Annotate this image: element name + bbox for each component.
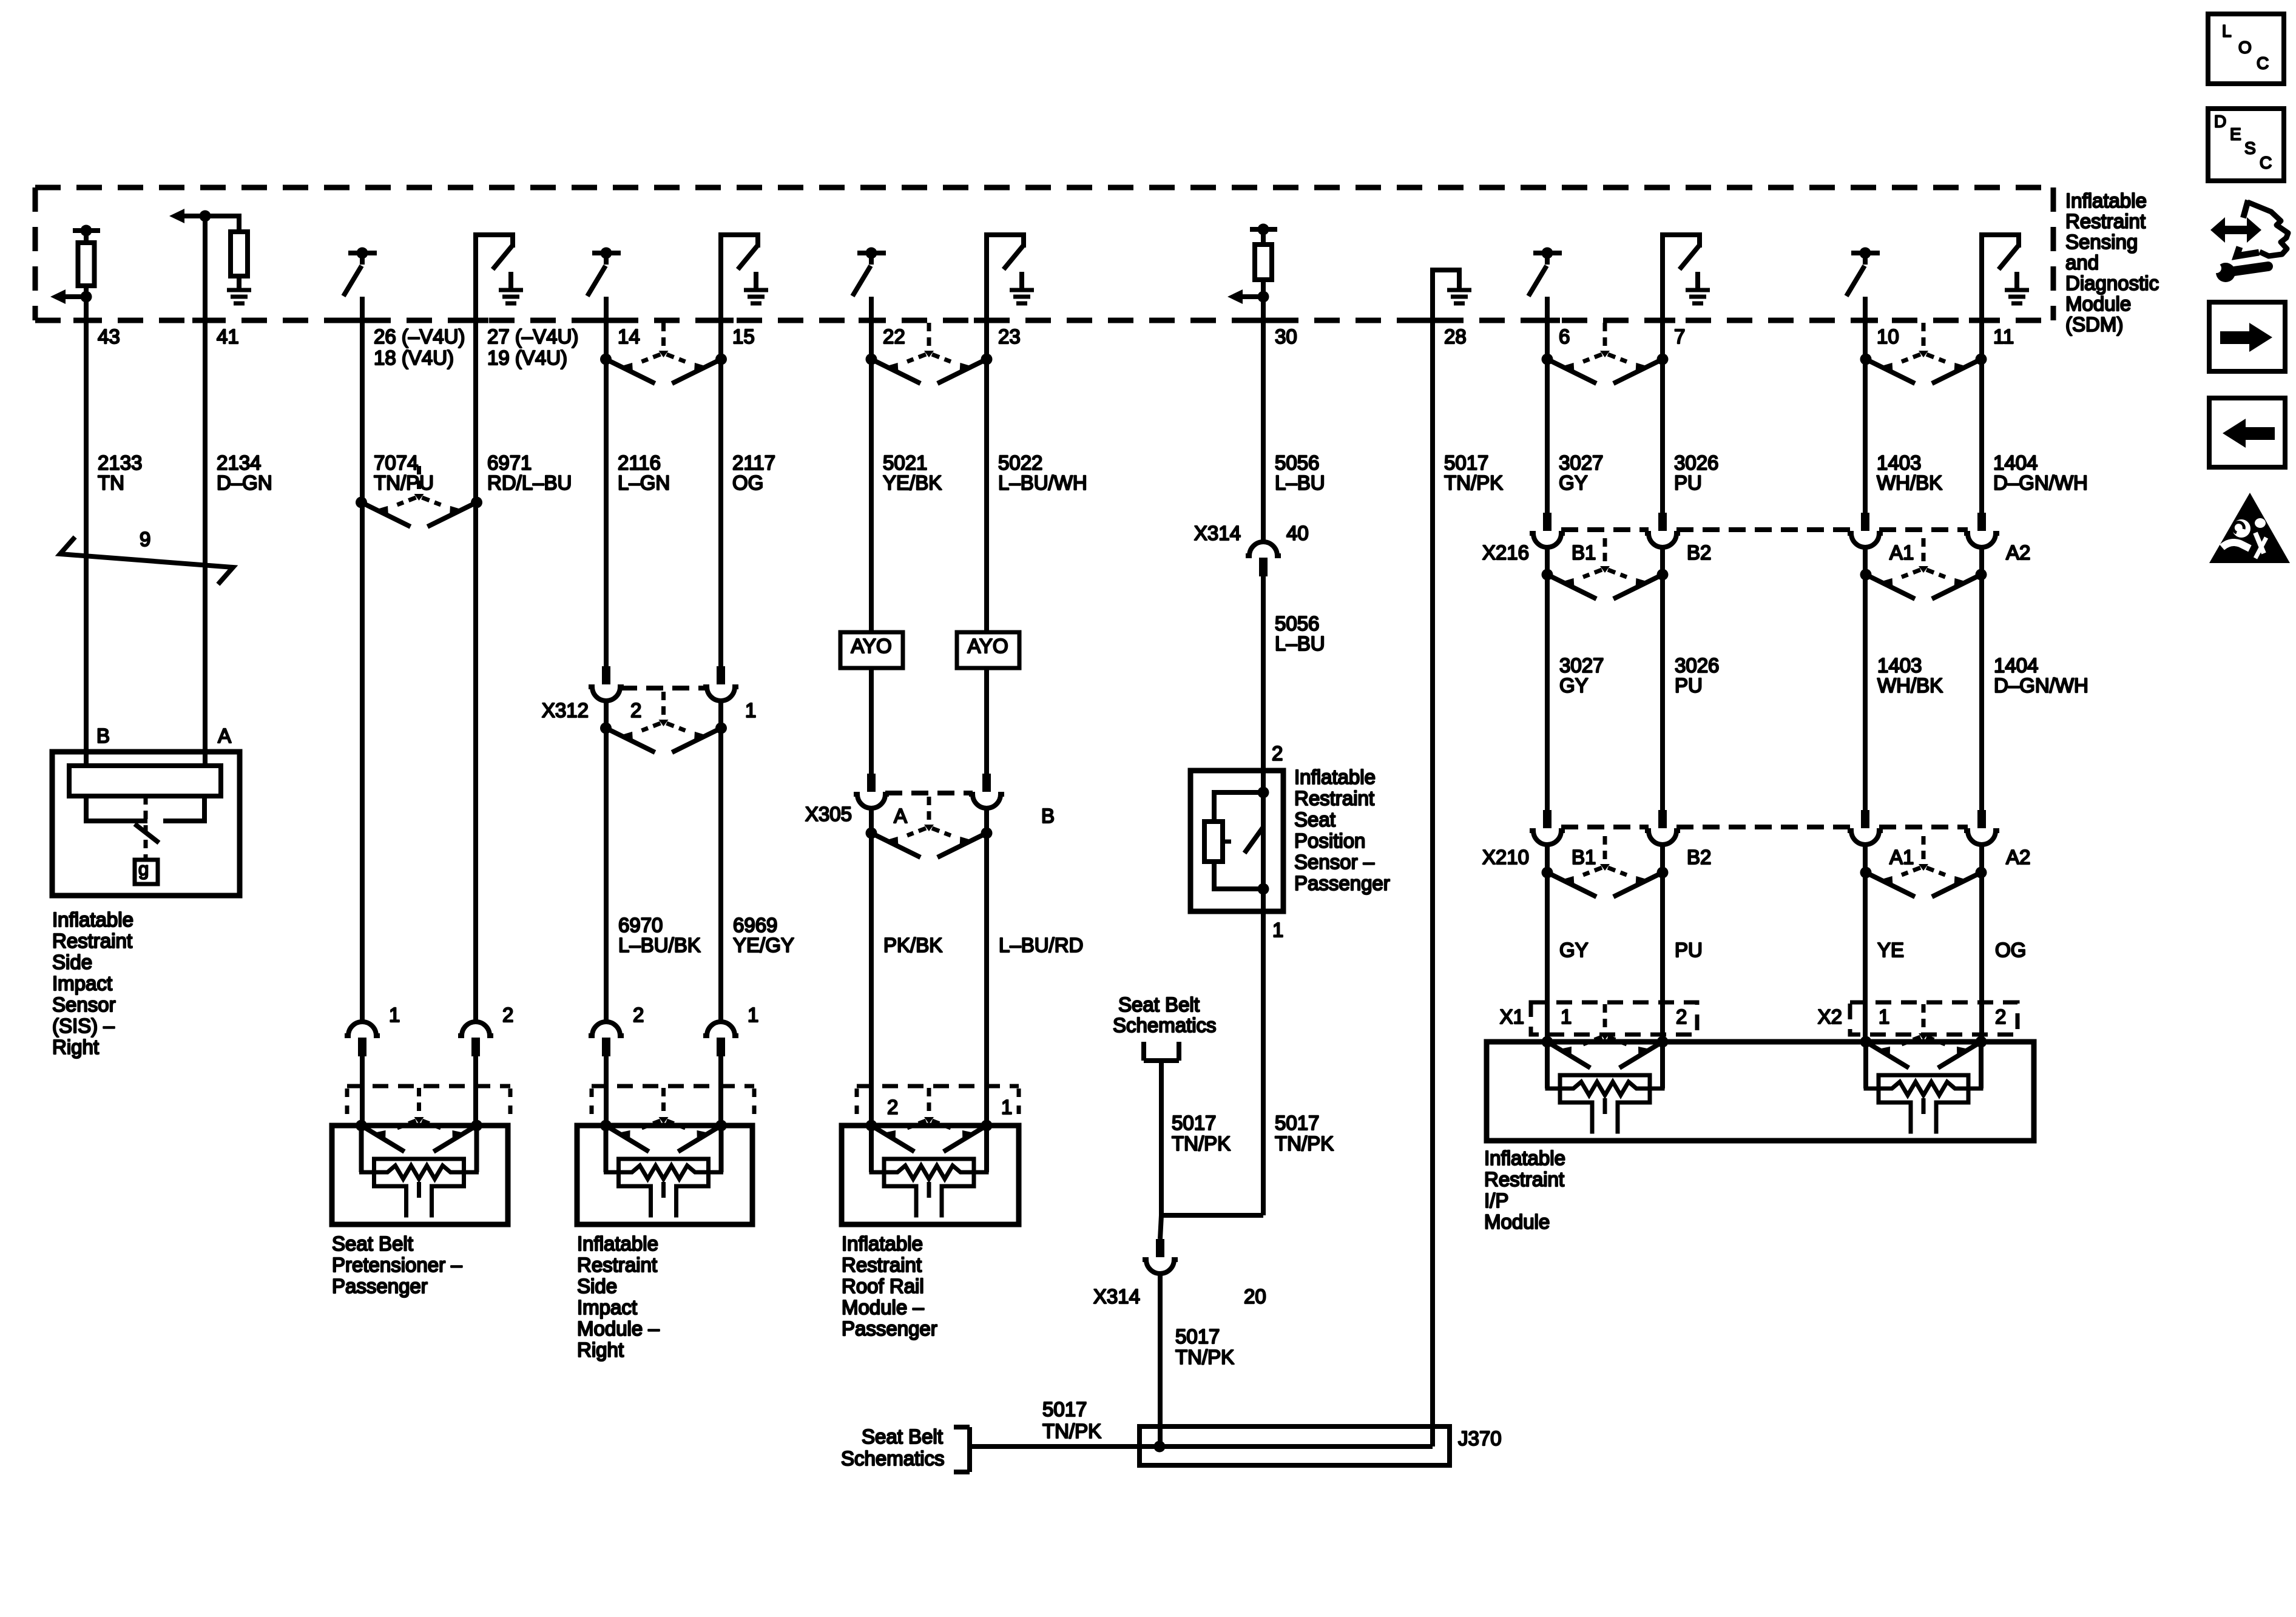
- svg-text:Impact: Impact: [577, 1296, 637, 1318]
- svg-text:2: 2: [502, 1004, 513, 1026]
- svg-text:41: 41: [217, 325, 239, 348]
- svg-text:5017: 5017: [1042, 1398, 1087, 1420]
- svg-text:A1: A1: [1889, 541, 1914, 564]
- svg-text:Side: Side: [52, 951, 92, 973]
- svg-text:Restraint: Restraint: [1484, 1168, 1564, 1190]
- svg-text:5056: 5056: [1275, 612, 1319, 635]
- svg-text:TN/PK: TN/PK: [1275, 1132, 1334, 1155]
- svg-text:B2: B2: [1687, 846, 1711, 868]
- svg-text:5017: 5017: [1175, 1325, 1220, 1348]
- svg-text:11: 11: [1993, 325, 2014, 348]
- svg-text:g: g: [138, 859, 149, 880]
- svg-text:10: 10: [1877, 325, 1899, 348]
- svg-text:26 (–V4U): 26 (–V4U): [374, 325, 465, 348]
- svg-text:B1: B1: [1572, 541, 1596, 564]
- svg-text:15: 15: [732, 325, 755, 348]
- svg-text:5022: 5022: [998, 451, 1042, 474]
- svg-text:D–GN/WH: D–GN/WH: [1993, 471, 2088, 494]
- svg-text:TN/PK: TN/PK: [1172, 1132, 1231, 1155]
- svg-text:5017: 5017: [1444, 451, 1488, 474]
- svg-text:2: 2: [633, 1004, 644, 1026]
- svg-text:PU: PU: [1675, 939, 1703, 961]
- svg-text:Passenger: Passenger: [842, 1317, 937, 1340]
- svg-text:7: 7: [1674, 325, 1685, 348]
- svg-text:3027: 3027: [1559, 451, 1603, 474]
- svg-text:A: A: [218, 724, 231, 747]
- svg-text:PK/BK: PK/BK: [883, 934, 942, 956]
- svg-text:X2: X2: [1818, 1005, 1842, 1028]
- svg-text:(SDM): (SDM): [2065, 313, 2123, 336]
- svg-text:7074: 7074: [374, 451, 418, 474]
- svg-text:A1: A1: [1889, 846, 1914, 868]
- svg-text:C: C: [2260, 153, 2272, 172]
- svg-text:TN: TN: [98, 471, 124, 494]
- svg-text:Right: Right: [52, 1036, 99, 1058]
- svg-text:19 (V4U): 19 (V4U): [487, 346, 567, 369]
- svg-text:2: 2: [1676, 1005, 1687, 1028]
- svg-text:Module: Module: [1484, 1210, 1550, 1233]
- svg-text:2133: 2133: [98, 451, 142, 474]
- svg-text:6971: 6971: [487, 451, 532, 474]
- svg-text:B2: B2: [1687, 541, 1711, 564]
- svg-text:5017: 5017: [1275, 1112, 1319, 1134]
- svg-text:X305: X305: [805, 803, 852, 825]
- svg-text:Impact: Impact: [52, 972, 112, 994]
- svg-text:L–BU/BK: L–BU/BK: [618, 934, 701, 956]
- svg-text:AYO: AYO: [851, 635, 891, 657]
- svg-text:40: 40: [1286, 522, 1309, 544]
- svg-text:1: 1: [1001, 1096, 1012, 1118]
- svg-text:B: B: [96, 724, 110, 747]
- svg-text:20: 20: [1244, 1285, 1266, 1308]
- svg-text:B: B: [1041, 805, 1055, 827]
- svg-text:X314: X314: [1194, 522, 1241, 544]
- svg-text:Seat Belt: Seat Belt: [1118, 993, 1200, 1016]
- svg-text:and: and: [2065, 251, 2099, 274]
- svg-text:I/P: I/P: [1484, 1189, 1508, 1212]
- svg-text:YE/GY: YE/GY: [733, 934, 794, 956]
- svg-text:1: 1: [389, 1004, 400, 1026]
- svg-text:1404: 1404: [1994, 654, 2038, 677]
- svg-text:Restraint: Restraint: [842, 1254, 922, 1276]
- svg-text:27 (–V4U): 27 (–V4U): [487, 325, 578, 348]
- svg-text:A2: A2: [2006, 846, 2030, 868]
- svg-text:1403: 1403: [1877, 654, 1922, 677]
- svg-text:Seat Belt: Seat Belt: [332, 1232, 413, 1255]
- svg-text:L–BU: L–BU: [1275, 632, 1325, 655]
- svg-text:X210: X210: [1482, 846, 1529, 868]
- svg-text:Side: Side: [577, 1275, 617, 1297]
- svg-text:Module –: Module –: [842, 1296, 924, 1318]
- svg-text:S: S: [2244, 138, 2256, 157]
- svg-text:6: 6: [1559, 325, 1570, 348]
- svg-text:Restraint: Restraint: [577, 1254, 657, 1276]
- svg-text:1: 1: [745, 699, 756, 721]
- svg-text:6970: 6970: [618, 914, 663, 936]
- svg-text:2: 2: [630, 699, 641, 721]
- svg-text:Inflatable: Inflatable: [577, 1232, 658, 1255]
- svg-text:1: 1: [1879, 1005, 1889, 1028]
- svg-text:2: 2: [887, 1096, 898, 1118]
- svg-text:L: L: [2222, 21, 2232, 40]
- svg-text:Passenger: Passenger: [332, 1275, 428, 1297]
- svg-text:TN/PK: TN/PK: [1444, 471, 1503, 494]
- svg-text:9: 9: [140, 528, 150, 550]
- svg-text:Schematics: Schematics: [1113, 1014, 1217, 1036]
- svg-text:Inflatable: Inflatable: [2065, 189, 2147, 212]
- svg-text:Inflatable: Inflatable: [842, 1232, 923, 1255]
- svg-text:TN/PK: TN/PK: [1175, 1346, 1234, 1368]
- svg-text:(SIS) –: (SIS) –: [52, 1014, 115, 1037]
- svg-text:6969: 6969: [733, 914, 777, 936]
- svg-text:Position: Position: [1294, 829, 1365, 852]
- svg-text:2117: 2117: [732, 451, 775, 474]
- svg-text:28: 28: [1444, 325, 1467, 348]
- svg-text:OG: OG: [732, 471, 763, 494]
- svg-text:RD/L–BU: RD/L–BU: [487, 471, 572, 494]
- svg-text:D–GN: D–GN: [217, 471, 272, 494]
- svg-text:3027: 3027: [1559, 654, 1604, 677]
- svg-text:O: O: [2238, 38, 2252, 56]
- svg-text:Restraint: Restraint: [1294, 787, 1374, 809]
- svg-text:D: D: [2214, 112, 2226, 130]
- svg-text:L–BU: L–BU: [1275, 471, 1325, 494]
- svg-text:C: C: [2257, 53, 2269, 72]
- svg-text:Sensor: Sensor: [52, 993, 116, 1016]
- svg-text:43: 43: [98, 325, 120, 348]
- svg-text:14: 14: [618, 325, 640, 348]
- svg-text:PU: PU: [1675, 674, 1703, 697]
- svg-text:1403: 1403: [1877, 451, 1921, 474]
- svg-text:22: 22: [883, 325, 905, 348]
- svg-text:1404: 1404: [1993, 451, 2038, 474]
- svg-text:23: 23: [998, 325, 1021, 348]
- svg-text:TN/PK: TN/PK: [1042, 1420, 1101, 1442]
- svg-text:18 (V4U): 18 (V4U): [374, 346, 454, 369]
- svg-text:WH/BK: WH/BK: [1877, 674, 1943, 697]
- svg-text:E: E: [2230, 124, 2241, 143]
- svg-text:AYO: AYO: [967, 635, 1008, 657]
- svg-text:3026: 3026: [1675, 654, 1719, 677]
- svg-text:B1: B1: [1572, 846, 1596, 868]
- svg-text:X216: X216: [1482, 541, 1529, 564]
- svg-text:Passenger: Passenger: [1294, 872, 1390, 894]
- svg-text:L–BU/WH: L–BU/WH: [998, 471, 1087, 494]
- svg-text:PU: PU: [1674, 471, 1702, 494]
- svg-text:X312: X312: [542, 699, 589, 721]
- svg-text:5017: 5017: [1172, 1112, 1216, 1134]
- svg-text:L–BU/RD: L–BU/RD: [999, 934, 1083, 956]
- svg-text:OG: OG: [1995, 939, 2026, 961]
- svg-text:Diagnostic: Diagnostic: [2065, 272, 2159, 294]
- svg-text:GY: GY: [1559, 674, 1589, 697]
- svg-text:2116: 2116: [618, 451, 661, 474]
- svg-text:YE: YE: [1877, 939, 1904, 961]
- svg-text:Pretensioner –: Pretensioner –: [332, 1254, 462, 1276]
- svg-text:Sensing: Sensing: [2065, 231, 2138, 253]
- svg-text:5021: 5021: [883, 451, 927, 474]
- svg-text:Seat Belt: Seat Belt: [862, 1425, 943, 1448]
- svg-text:Restraint: Restraint: [52, 930, 132, 952]
- svg-text:GY: GY: [1559, 471, 1588, 494]
- svg-text:Inflatable: Inflatable: [1484, 1147, 1565, 1169]
- svg-text:1: 1: [1561, 1005, 1572, 1028]
- svg-text:2: 2: [1995, 1005, 2006, 1028]
- svg-text:J370: J370: [1458, 1427, 1502, 1450]
- svg-text:1: 1: [1272, 919, 1283, 941]
- svg-text:Right: Right: [577, 1338, 624, 1361]
- svg-text:L–GN: L–GN: [618, 471, 670, 494]
- svg-text:1: 1: [748, 1004, 758, 1026]
- svg-text:GY: GY: [1559, 939, 1589, 961]
- svg-text:YE/BK: YE/BK: [883, 471, 942, 494]
- svg-text:3026: 3026: [1674, 451, 1718, 474]
- svg-text:2134: 2134: [217, 451, 261, 474]
- svg-text:Inflatable: Inflatable: [52, 908, 133, 931]
- svg-text:X1: X1: [1500, 1005, 1524, 1028]
- svg-text:D–GN/WH: D–GN/WH: [1994, 674, 2088, 697]
- svg-text:Inflatable: Inflatable: [1294, 766, 1376, 788]
- svg-text:A2: A2: [2006, 541, 2030, 564]
- svg-text:30: 30: [1275, 325, 1297, 348]
- svg-text:TN/PU: TN/PU: [374, 471, 434, 494]
- svg-text:Roof Rail: Roof Rail: [842, 1275, 924, 1297]
- svg-text:Module –: Module –: [577, 1317, 660, 1340]
- svg-text:Schematics: Schematics: [841, 1447, 945, 1470]
- svg-text:A: A: [894, 805, 907, 827]
- svg-text:2: 2: [1272, 742, 1283, 765]
- svg-text:Restraint: Restraint: [2065, 210, 2146, 232]
- svg-text:5056: 5056: [1275, 451, 1319, 474]
- svg-text:Module: Module: [2065, 292, 2131, 315]
- svg-text:WH/BK: WH/BK: [1877, 471, 1942, 494]
- svg-text:X314: X314: [1093, 1285, 1140, 1308]
- svg-text:Sensor –: Sensor –: [1294, 851, 1375, 873]
- svg-text:Seat: Seat: [1294, 808, 1335, 831]
